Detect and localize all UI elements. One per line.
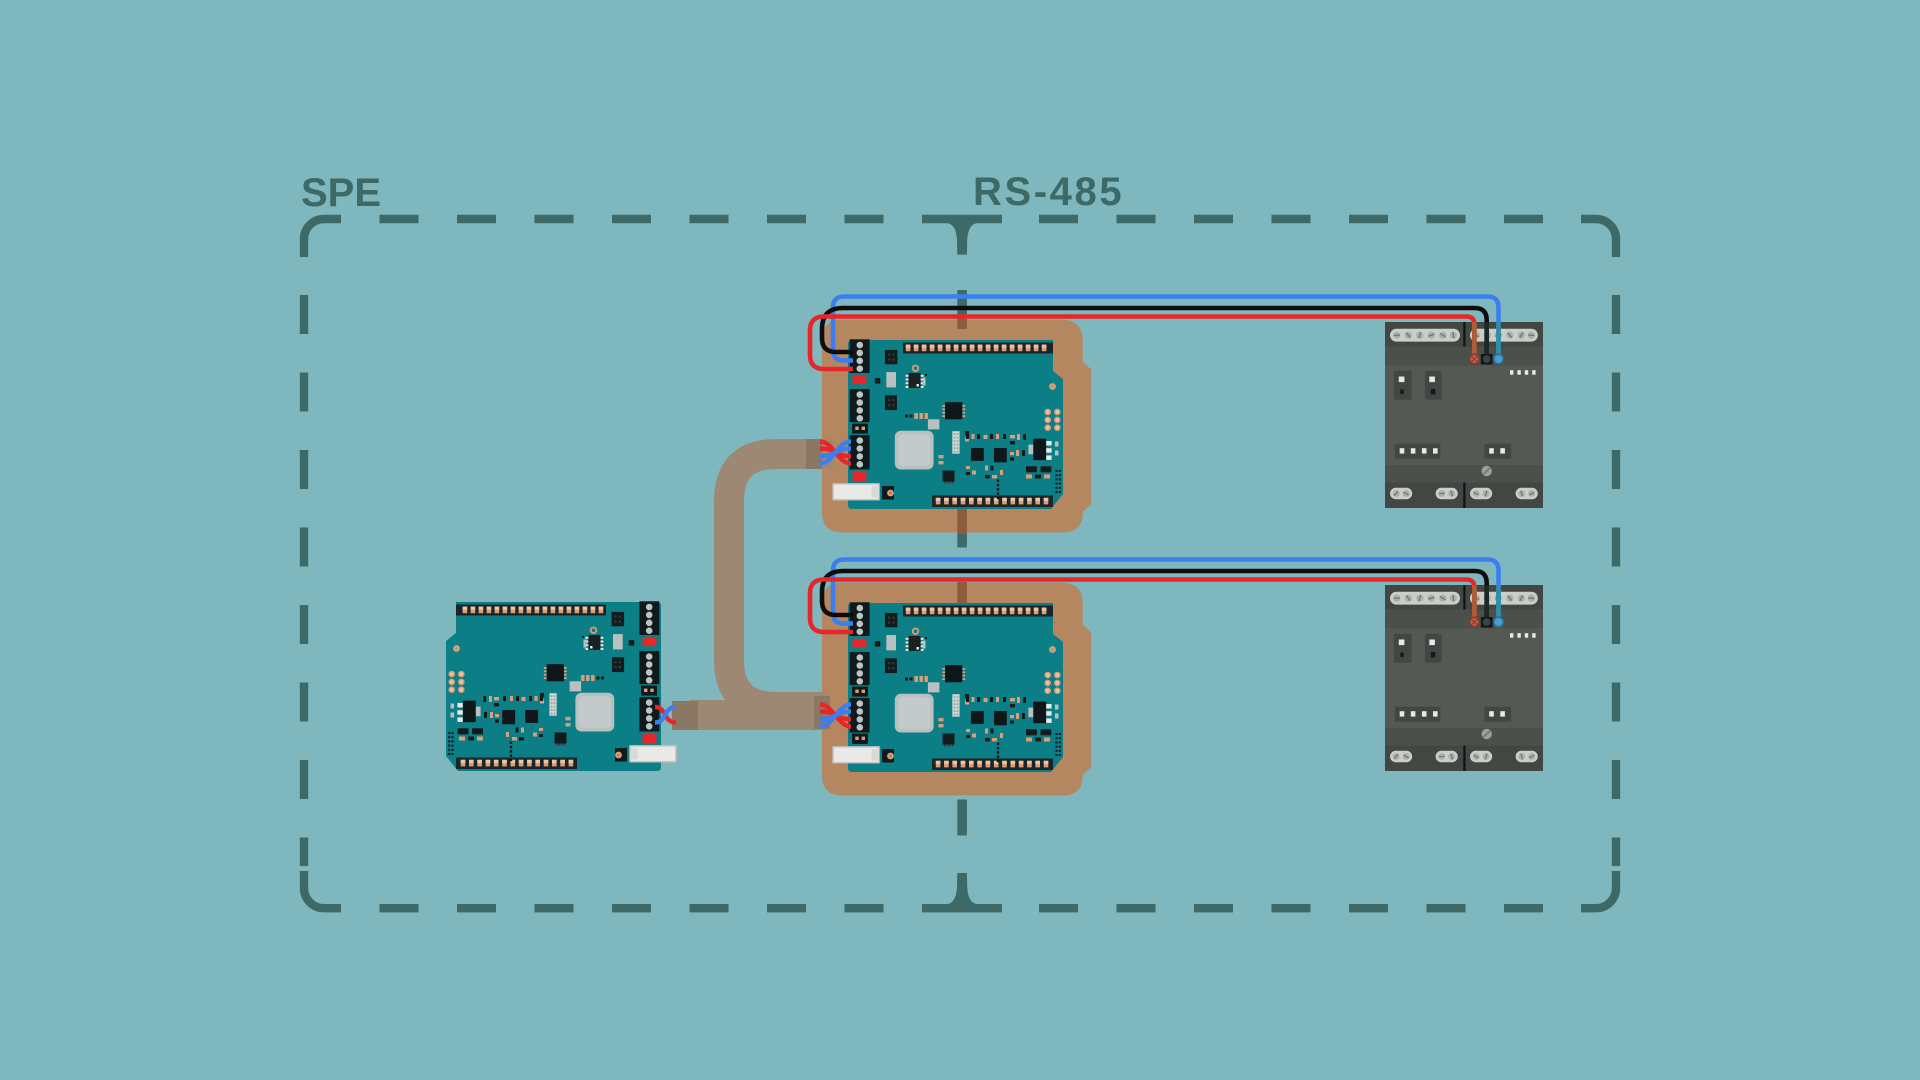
- twisted pair at bottom shield: [820, 705, 851, 727]
- divider dash segments: [957, 534, 967, 548]
- plc module bottom: [1385, 585, 1543, 771]
- arduino uno bottom: [833, 602, 1063, 772]
- divider Y junction bottom: [922, 873, 1002, 912]
- dashed boundary box bottom edge right part: [1039, 904, 1578, 912]
- divider Y junction top: [922, 215, 1002, 255]
- wire set bottom: [810, 560, 1503, 634]
- SPE shield outline blob (bottom): [822, 583, 1091, 796]
- svg-text:RS-485: RS-485: [973, 170, 1124, 214]
- wire set top: [810, 297, 1503, 371]
- twisted pair at left MKR: [655, 707, 676, 723]
- SPE cable plug at top shield: [806, 439, 822, 469]
- divider dash crossing wires (top): [957, 290, 967, 317]
- SPE cable: left MKR to bottom shield (straight): [690, 700, 826, 730]
- divider dash over shield2 top: [957, 582, 967, 605]
- plc module top: [1385, 322, 1543, 508]
- SPE cable plug at bottom shield (double): [814, 696, 830, 729]
- SPE cable plug at left MKR: [672, 701, 698, 730]
- SPE cable: bottom shield to top shield (C curve): [729, 454, 833, 707]
- dashed boundary box corners: [304, 219, 341, 257]
- dashed boundary box right edge: [1612, 295, 1620, 866]
- arduino mkr left (mirrored): [446, 601, 676, 771]
- dashed boundary box top edge right part: [1039, 215, 1578, 223]
- arduino uno top: [833, 339, 1063, 509]
- bottom board jumper variant patch: [852, 734, 868, 744]
- twisted pair at top shield: [820, 442, 851, 464]
- dashed boundary box bottom edge left part: [380, 904, 904, 912]
- divider dash under board1 / over shield1 bottom: [957, 509, 967, 534]
- SPE shield outline blob (top): [822, 320, 1091, 533]
- svg-text:SPE: SPE: [301, 171, 381, 215]
- dashed boundary box top edge left part: [380, 215, 904, 223]
- dashed boundary box left edge: [300, 295, 308, 866]
